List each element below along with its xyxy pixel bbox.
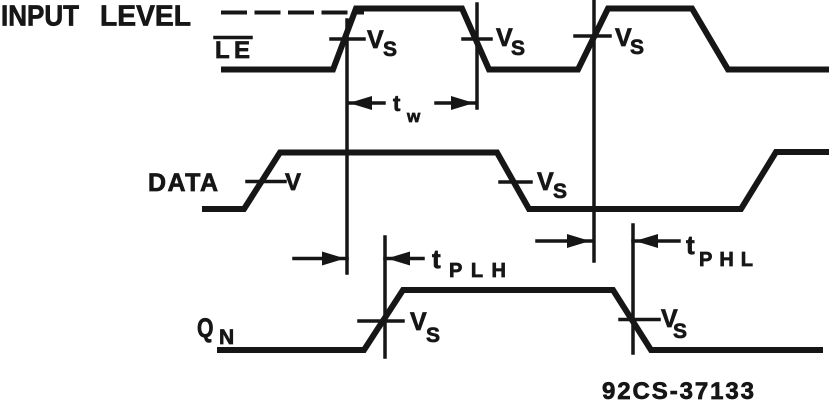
tPHL left arrow (into x=594 line) [537, 239, 592, 243]
vertical cursor line at QN falling edge (x=633) [631, 225, 635, 353]
svg-text:N: N [219, 326, 234, 349]
svg-text:LEVEL: LEVEL [100, 1, 191, 33]
tPHL right arrow (from x=633 line) [633, 239, 679, 243]
QN label [197, 313, 234, 349]
tw left arrow [349, 101, 384, 105]
DATA waveform [205, 152, 829, 209]
svg-text:S: S [426, 324, 440, 347]
svg-text:S: S [553, 180, 567, 203]
svg-text:S: S [511, 37, 525, 60]
tPLH right arrow (from x=385 line) [385, 257, 423, 261]
svg-text:PHL: PHL [699, 249, 760, 271]
svg-text:Q: Q [197, 313, 214, 343]
tPLH left arrow (into x=347 line) [294, 257, 347, 261]
svg-text:V: V [410, 308, 427, 336]
vertical cursor line at LE falling edge 1 (x=477) [475, 4, 479, 108]
tick DATA rising edge [247, 180, 285, 184]
svg-text:V: V [537, 168, 554, 196]
svg-text:V: V [285, 169, 301, 196]
tw right arrow [436, 101, 474, 105]
svg-text:DATA: DATA [148, 169, 218, 197]
svg-text:V: V [367, 26, 384, 54]
tick LE falling edge 1 [463, 37, 491, 41]
svg-text:t: t [393, 91, 401, 116]
vertical cursor line at QN rising edge (x=385) [383, 237, 387, 357]
svg-text:t: t [686, 230, 695, 260]
QN waveform [220, 290, 820, 350]
tick LE rising edge 1 [331, 37, 364, 41]
label VS at LE falling edge 1 [496, 24, 525, 60]
label tw [393, 91, 421, 126]
label VS at LE rising edge 2 [615, 24, 644, 59]
tick QN falling edge [620, 318, 659, 322]
svg-text:S: S [630, 36, 644, 59]
input-level dashed reference line [223, 11, 362, 15]
label VS at LE rising edge 1 [367, 26, 397, 61]
svg-text:S: S [673, 320, 687, 343]
label LE (overbar) [215, 36, 251, 40]
tick LE rising edge 2 [575, 34, 610, 38]
svg-text:PLH: PLH [449, 260, 515, 282]
vertical cursor line at LE rising edge 1 (x=347) [345, 20, 349, 273]
label VS at DATA falling edge [537, 168, 567, 203]
label tPLH [432, 244, 515, 282]
svg-text:S: S [383, 38, 397, 61]
svg-text:INPUT: INPUT [1, 1, 79, 33]
label VS at QN rising edge [410, 308, 440, 347]
label V at DATA rising edge [285, 169, 301, 196]
svg-text:t: t [432, 244, 441, 274]
label tPHL [686, 230, 760, 271]
label VS at QN falling edge [661, 305, 687, 343]
svg-text:w: w [406, 107, 421, 126]
LE waveform [224, 9, 827, 70]
tick QN rising edge [359, 319, 403, 323]
tick DATA falling edge [500, 180, 531, 184]
vertical cursor line at LE rising edge 2 (x=594) [592, 1, 596, 261]
